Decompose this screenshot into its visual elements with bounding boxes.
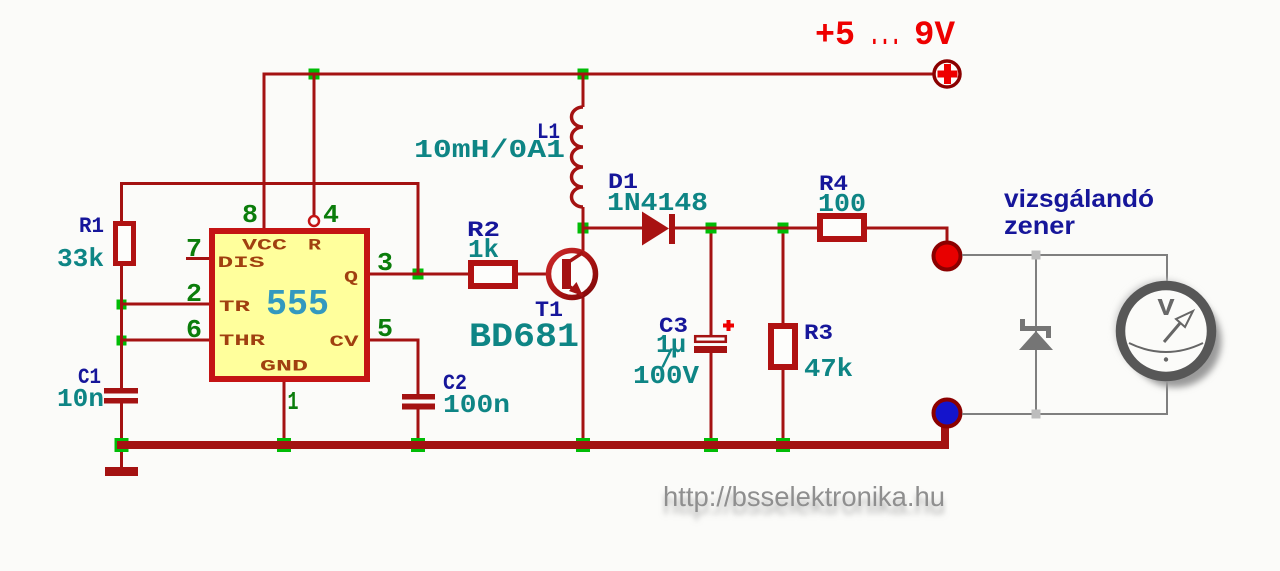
- svg-text:33k: 33k: [57, 244, 104, 274]
- svg-text:+5: +5: [815, 17, 855, 55]
- svg-text:vizsgálandó: vizsgálandó: [1004, 185, 1154, 213]
- svg-text:100n: 100n: [443, 390, 510, 420]
- svg-text:http://bsselektronika.hu: http://bsselektronika.hu: [663, 481, 945, 512]
- svg-text:DIS: DIS: [218, 254, 266, 272]
- svg-text:GND: GND: [260, 358, 308, 376]
- svg-text:V: V: [1158, 296, 1176, 323]
- svg-text:47k: 47k: [804, 354, 853, 384]
- svg-text:5: 5: [377, 314, 393, 344]
- svg-text:10n: 10n: [57, 384, 104, 414]
- svg-text:BD681: BD681: [469, 319, 579, 357]
- svg-text:Q: Q: [344, 269, 359, 287]
- svg-text:TR: TR: [219, 298, 251, 316]
- svg-text:7: 7: [186, 234, 202, 264]
- svg-text:THR: THR: [219, 332, 266, 350]
- svg-text:R: R: [308, 237, 322, 255]
- svg-text:1k: 1k: [468, 235, 499, 265]
- svg-text:...: ...: [869, 17, 901, 55]
- svg-text:R3: R3: [804, 321, 833, 346]
- svg-text:zener: zener: [1004, 212, 1075, 240]
- svg-text:CV: CV: [330, 333, 360, 351]
- svg-text:2: 2: [186, 279, 202, 309]
- svg-text:3: 3: [377, 248, 393, 278]
- svg-text:8: 8: [242, 200, 258, 230]
- svg-text:555: 555: [266, 284, 329, 325]
- svg-text:100V: 100V: [633, 361, 699, 391]
- svg-text:100: 100: [818, 189, 866, 219]
- svg-text:R1: R1: [79, 214, 104, 239]
- svg-text:1N4148: 1N4148: [607, 188, 708, 218]
- svg-text:VCC: VCC: [242, 237, 288, 255]
- svg-text:10mH/0A1: 10mH/0A1: [414, 135, 565, 165]
- svg-text:1: 1: [288, 387, 299, 417]
- svg-text:4: 4: [323, 200, 339, 230]
- svg-text:9V: 9V: [914, 17, 956, 55]
- svg-text:6: 6: [186, 315, 202, 345]
